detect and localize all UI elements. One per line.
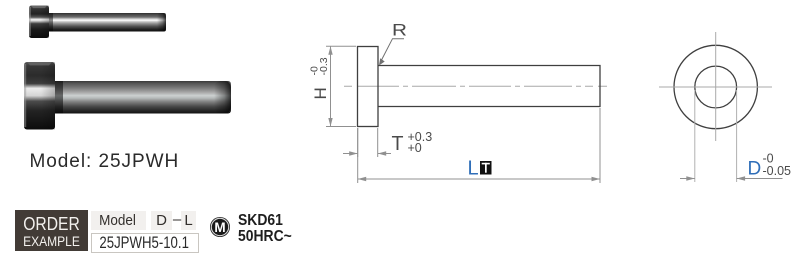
svg-text:L: L: [468, 158, 479, 180]
tolerance symbol box with T: [480, 161, 492, 175]
large pin shaft end cap: [214, 81, 231, 114]
svg-text:+0: +0: [408, 141, 422, 155]
small pin head: [29, 6, 49, 39]
end view crosshair centerlines: [659, 86, 772, 88]
svg-text:M: M: [214, 219, 225, 234]
small pin head left rim highlight: [29, 7, 31, 36]
large pin head right-side shading: [41, 62, 55, 130]
H dimension line with arrows: [330, 46, 332, 126]
svg-text:-0.05: -0.05: [763, 164, 792, 178]
large pin shaft root shadow: [55, 81, 63, 114]
T dimension extension lines: [357, 128, 359, 157]
svg-text:D: D: [748, 159, 762, 180]
label H with tolerance (rotated): [309, 57, 331, 99]
small pin shaft end cap: [157, 13, 166, 32]
end view inner circle: [695, 66, 737, 108]
D dimension extension lines: [694, 90, 696, 182]
material logo M: [210, 217, 230, 237]
end view outer circle: [674, 45, 757, 128]
small pin shaft: [45, 13, 166, 32]
head rectangle (side view): [358, 47, 379, 127]
svg-text:-0.3: -0.3: [318, 57, 330, 75]
T dimension line with outside arrows: [343, 153, 358, 155]
svg-text:R: R: [392, 21, 407, 40]
photo: small ejector pin (top-left): [15, 0, 245, 140]
ORDER EXAMPLE block: [15, 210, 88, 251]
small pin head top face: [31, 6, 47, 9]
large pin head top face: [27, 62, 52, 65]
D dimension line with outside arrows: [680, 178, 695, 180]
technical drawing (side view + end view): [290, 10, 808, 200]
small pin head right-side shading: [40, 6, 49, 39]
large pin head left rim highlight: [24, 64, 26, 127]
large pin head: [24, 62, 55, 130]
L dimension line with arrows: [358, 178, 600, 180]
large pin shaft: [52, 81, 231, 114]
order table: header chips: [91, 211, 146, 231]
H dimension extension lines: [326, 45, 356, 47]
R leader line with arrow: [380, 39, 404, 64]
small pin shaft root shadow: [48, 13, 53, 32]
material text SKD61 50HRC~: [238, 213, 292, 245]
centerline of shaft: [344, 85, 607, 87]
shaft rectangle (side view): [378, 66, 600, 107]
svg-text:T: T: [392, 132, 404, 155]
caption: Model: 25JPWH: [30, 151, 180, 173]
svg-text:H: H: [311, 87, 330, 99]
order example value box: [91, 233, 199, 253]
L dimension extension lines: [357, 128, 359, 183]
